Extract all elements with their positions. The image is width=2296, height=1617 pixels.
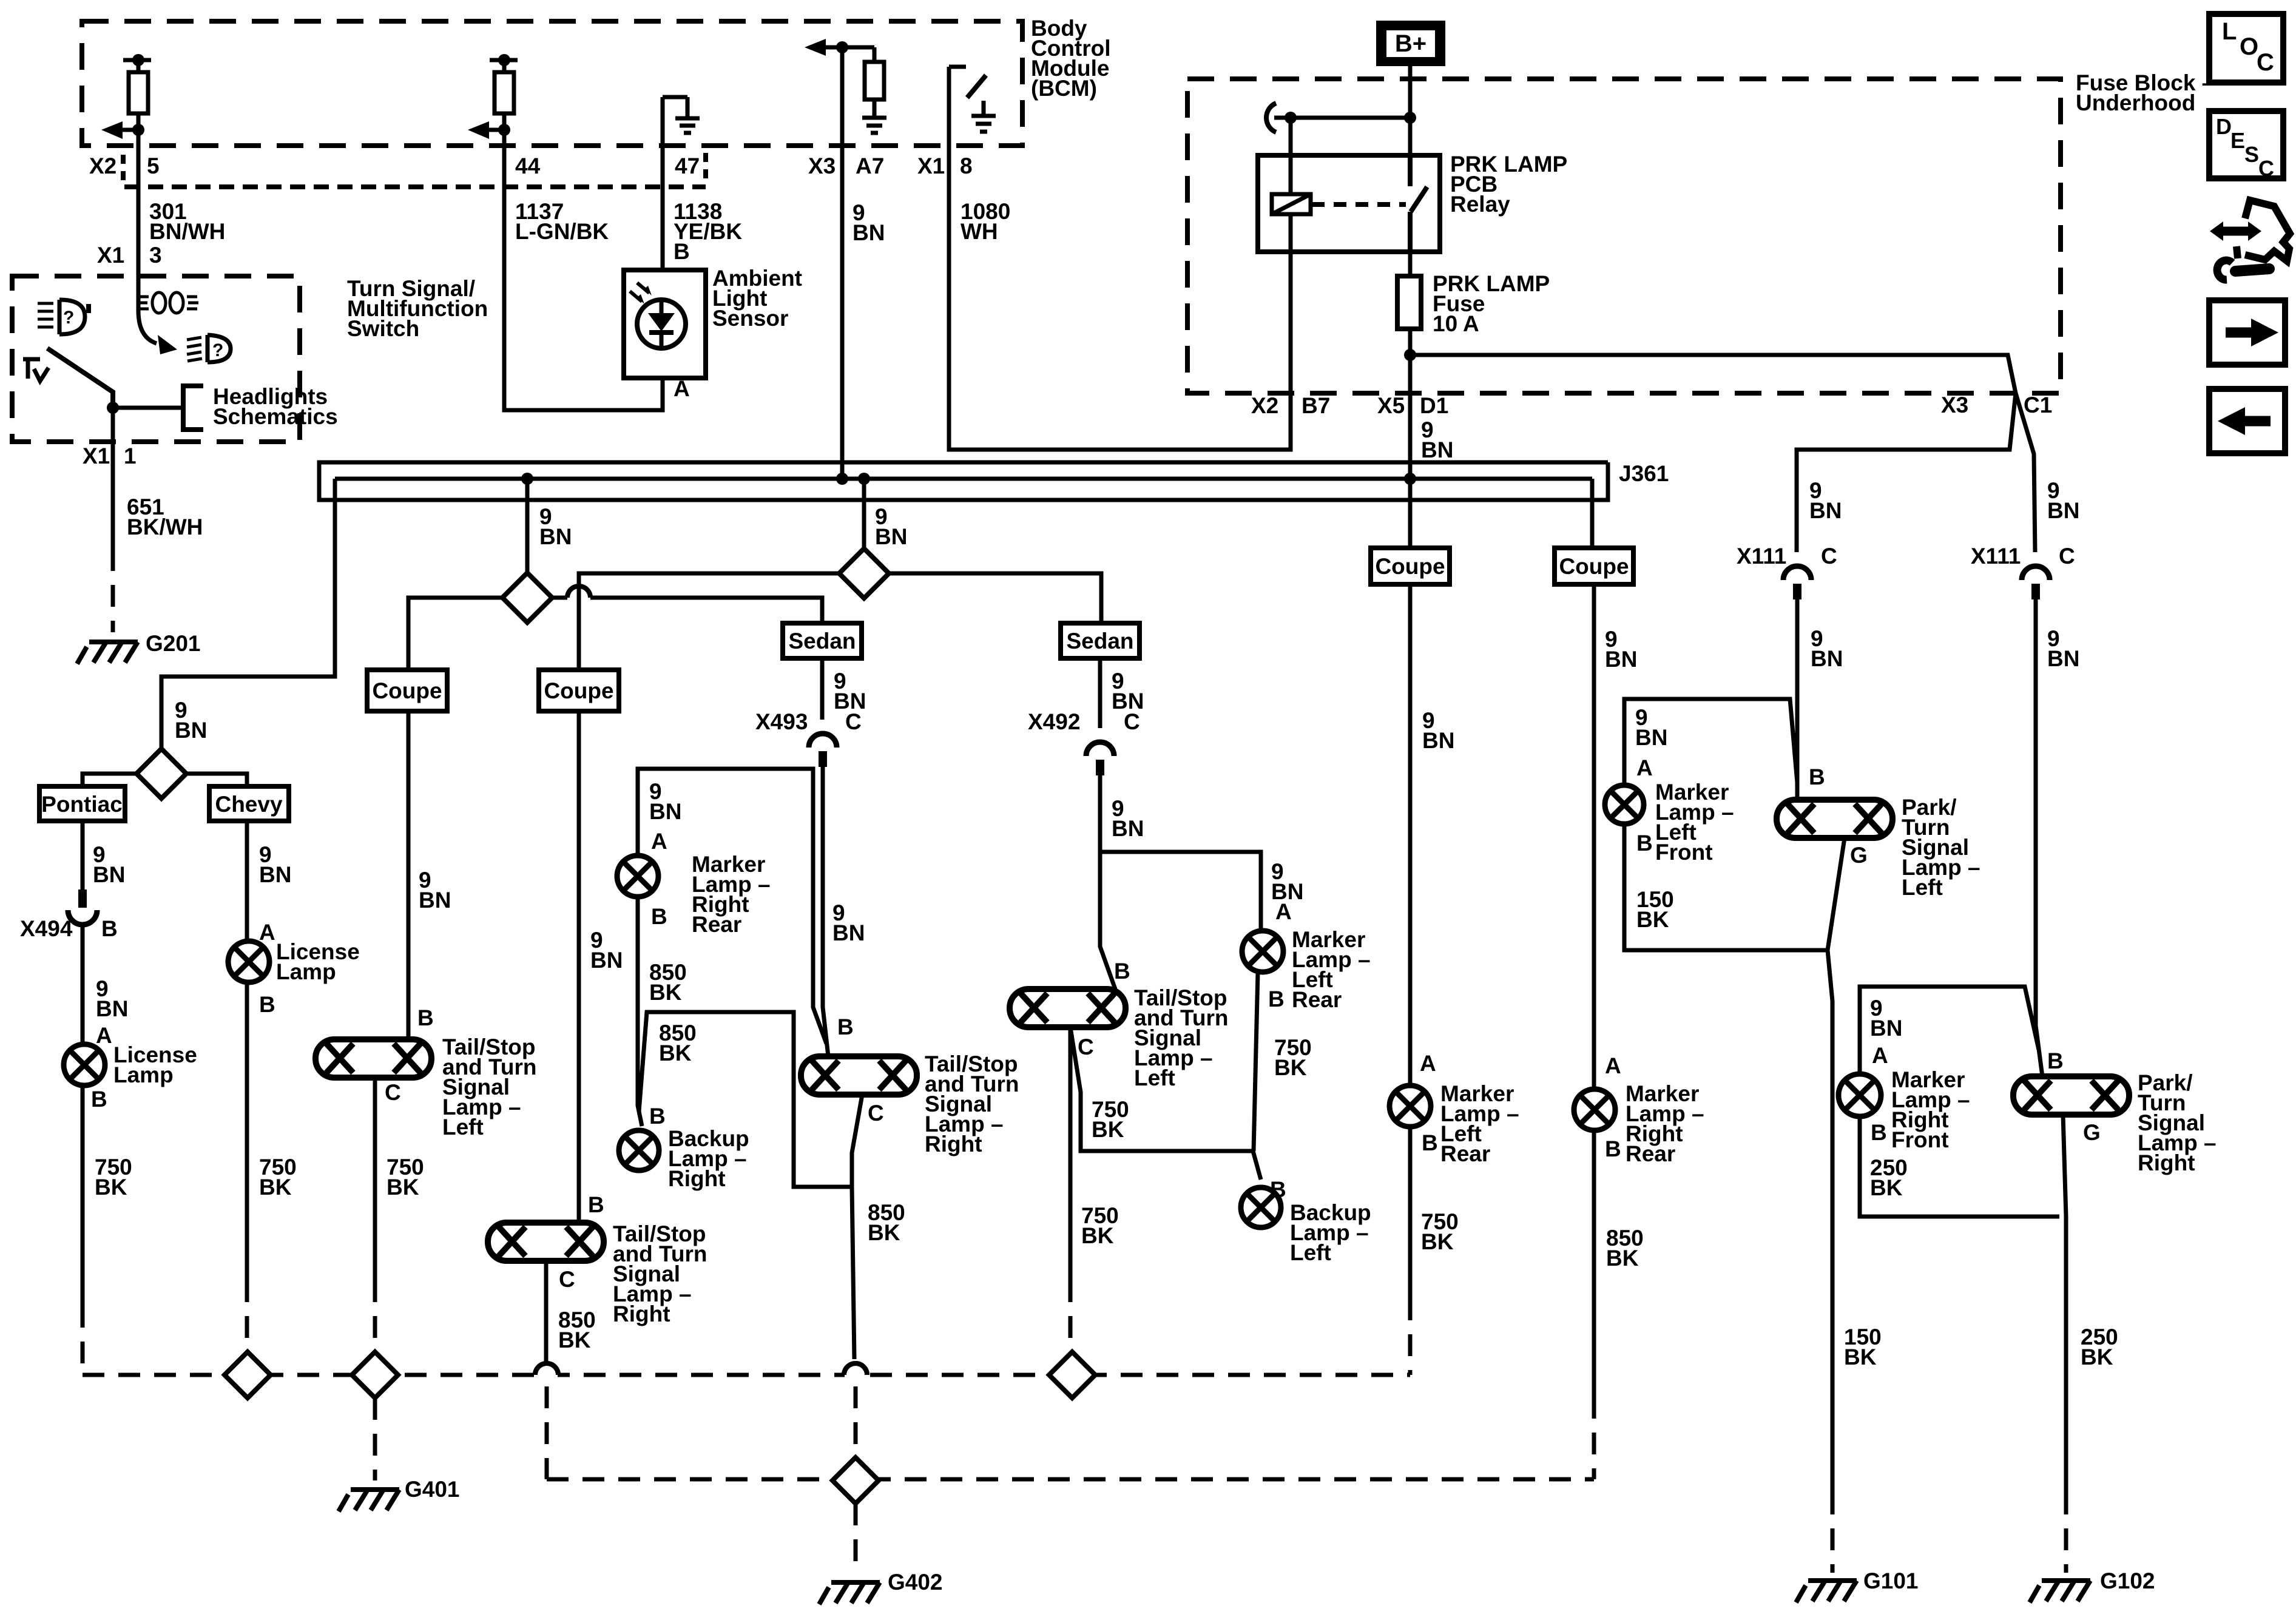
svg-text:BK: BK <box>558 1328 591 1352</box>
ground G102 <box>2030 1581 2090 1602</box>
splice pack J361 outline <box>319 462 1608 500</box>
icon arrow left box <box>2209 389 2285 453</box>
wire Coupe-4 9 BN to marker lamp right rear A <box>1592 584 1596 1089</box>
svg-text:Relay: Relay <box>1450 192 1510 217</box>
svg-text:BK: BK <box>649 980 682 1005</box>
svg-text:5: 5 <box>147 154 160 178</box>
svg-text:Rear: Rear <box>1292 987 1342 1012</box>
BCM internal resistor leg pin X2-44 <box>490 60 518 130</box>
tail/stop and turn signal lamp - left (coupe) E3 <box>316 1039 431 1078</box>
Pontiac connector tag <box>39 786 125 821</box>
ground G101 <box>1796 1581 1857 1602</box>
svg-text:A: A <box>1605 1053 1621 1078</box>
svg-text:Chevy: Chevy <box>215 792 282 817</box>
ground (inside BCM, pin 47 leg) <box>675 118 700 133</box>
wire fuse output 9 BN <box>1408 329 1413 479</box>
splice S7 (diamond) over G402 <box>832 1457 879 1504</box>
connector X493 <box>809 734 837 748</box>
ambient light sensor U1 box <box>624 270 706 378</box>
svg-text:BK: BK <box>659 1041 692 1065</box>
wire S1 to Coupe connector 1 <box>408 598 502 670</box>
svg-text:44: 44 <box>515 154 541 178</box>
svg-text:Rear: Rear <box>1626 1141 1675 1166</box>
wire tail/stop C ground branch to backup lamp <box>1070 1027 1261 1180</box>
svg-text:A: A <box>1636 755 1653 780</box>
wire Coupe-1 9 BN to tail/stop lamp B <box>407 711 411 1039</box>
svg-text:Right: Right <box>925 1132 982 1156</box>
wire C1 branch to left X111 <box>1797 393 2016 552</box>
wire tail/stop C 750 BK to ground bus 1 <box>1069 1027 1073 1280</box>
ground G402 <box>819 1582 880 1604</box>
svg-text:(BCM): (BCM) <box>1031 76 1097 101</box>
wire bus left drop 9 BN <box>161 479 335 749</box>
BCM internal resistor leg pin X2-5 <box>123 60 151 130</box>
park/turn signal lamp - left E14 <box>1777 800 1893 838</box>
Sedan connector tag 2 <box>1061 623 1140 658</box>
svg-text:BN: BN <box>1605 647 1637 672</box>
svg-text:X111: X111 <box>1971 544 2021 569</box>
svg-text:Coupe: Coupe <box>544 678 613 703</box>
marker lamp - left rear E8 <box>1242 931 1283 972</box>
svg-text:Coupe: Coupe <box>372 678 442 703</box>
marker lamp - right rear (coupe) E12 <box>1574 1089 1615 1130</box>
svg-text:B: B <box>1636 831 1653 856</box>
label 1137 L-GN/BK <box>515 199 609 244</box>
svg-text:BK: BK <box>387 1175 419 1200</box>
svg-text:G201: G201 <box>146 631 201 656</box>
svg-text:A: A <box>1420 1051 1436 1076</box>
svg-text:C1: C1 <box>2024 393 2052 417</box>
splice S2 (diamond) <box>839 549 889 598</box>
icon arrow right box <box>2209 300 2285 365</box>
svg-text:C: C <box>385 1080 401 1105</box>
feed loop to marker lamp left front <box>1624 699 1797 785</box>
svg-text:3: 3 <box>149 243 162 268</box>
BCM internal switch to ground, pin X1-8 <box>949 67 966 146</box>
Chevy connector tag <box>209 786 289 821</box>
svg-text:A: A <box>1872 1043 1888 1068</box>
node: junction dots X2-5 leg <box>132 54 144 66</box>
wire S2 to Sedan connector 2 <box>889 573 1101 623</box>
license lamp (Pontiac) E1 <box>64 1044 105 1085</box>
marker lamp - left rear (coupe) E11 <box>1389 1085 1431 1127</box>
license lamp (Chevy) E2 <box>228 941 269 982</box>
svg-text:C: C <box>2059 544 2075 569</box>
X47 connector divider tick <box>703 153 708 182</box>
svg-text:X1: X1 <box>83 444 110 468</box>
label 9 BN (A7 wire) <box>853 200 885 245</box>
svg-text:BN/WH: BN/WH <box>149 219 225 244</box>
svg-text:X2: X2 <box>89 154 116 178</box>
svg-text:Rear: Rear <box>1440 1141 1490 1166</box>
svg-text:A: A <box>674 376 690 401</box>
resistor inside BCM on X3-A7 leg <box>865 62 884 100</box>
wire tail/stop C 850 BK crossing to G402 bus <box>544 1261 549 1363</box>
svg-text:A: A <box>651 829 667 854</box>
svg-text:B7: B7 <box>1302 393 1330 418</box>
svg-text:B: B <box>649 1104 666 1129</box>
arrow (signal continues) X2-44 leg <box>489 128 504 132</box>
svg-text:BK: BK <box>868 1220 900 1245</box>
svg-text:C: C <box>1821 544 1837 569</box>
svg-text:G: G <box>2083 1120 2101 1145</box>
wire X111 9 BN to park/turn lamp B <box>2036 599 2042 1076</box>
wire into switch with curved arrow <box>138 276 157 343</box>
svg-text:Lamp: Lamp <box>113 1062 174 1087</box>
svg-text:8: 8 <box>960 154 973 178</box>
svg-text:BN: BN <box>832 920 865 945</box>
wire to headlights schematics bracket <box>113 406 183 410</box>
svg-text:Left: Left <box>1134 1065 1175 1090</box>
svg-text:S: S <box>2244 142 2259 167</box>
wire marker B 750 BK down <box>1254 972 1258 1151</box>
svg-text:B: B <box>588 1192 604 1217</box>
tail/stop and turn signal lamp - right (coupe) E4 <box>488 1223 604 1261</box>
splice pack J361 bus wire <box>335 477 1592 481</box>
marker lamp - left front E13 <box>1605 785 1644 824</box>
svg-text:B+: B+ <box>1395 30 1427 57</box>
svg-text:Right: Right <box>613 1301 670 1326</box>
svg-text:C: C <box>2257 49 2274 76</box>
tail/stop and turn signal lamp - left (sedan) E9 <box>1010 989 1126 1027</box>
svg-text:Sedan: Sedan <box>788 629 856 653</box>
wire park/turn G 150 BK to G101 <box>1828 838 1845 1493</box>
svg-text:B: B <box>1605 1136 1621 1161</box>
turn signal switch label <box>347 276 488 341</box>
svg-text:Pontiac: Pontiac <box>41 792 123 817</box>
wire B+ down <box>1408 66 1413 118</box>
labels X2 B7 X5 D1 <box>1251 393 1453 462</box>
wire tail/stop C 750 BK to G401 bus <box>373 1078 377 1280</box>
svg-text:BK: BK <box>1844 1345 1877 1369</box>
wire Sedan-1 9 BN to X493 <box>820 658 825 720</box>
svg-text:10 A: 10 A <box>1433 311 1479 336</box>
fuse block label <box>2076 70 2214 115</box>
Sedan connector tag 1 <box>783 623 862 658</box>
wire park/turn G 250 BK to G102 <box>2063 1115 2066 1493</box>
svg-text:G402: G402 <box>888 1570 943 1595</box>
svg-text:BK: BK <box>95 1175 127 1200</box>
svg-text:BN: BN <box>590 948 623 973</box>
wire S1 to Sedan connector 1 (hops over riser) <box>552 598 822 623</box>
svg-text:A: A <box>96 1023 112 1048</box>
switch blade (open) pin X1-8 <box>967 75 986 98</box>
park/turn signal lamp - right E16 <box>2013 1076 2129 1115</box>
svg-text:BK: BK <box>1081 1223 1114 1248</box>
wire Chevy license lamp B 750 BK <box>245 982 249 1280</box>
splice S3 (diamond) to Pontiac/Chevy <box>137 749 186 798</box>
svg-text:BK: BK <box>2081 1345 2113 1369</box>
svg-text:C: C <box>845 709 862 734</box>
svg-text:B: B <box>1809 765 1825 789</box>
svg-text:B: B <box>2047 1048 2064 1073</box>
svg-text:E: E <box>2230 128 2245 153</box>
svg-text:Right: Right <box>2138 1150 2195 1175</box>
Coupe connector tag 3 <box>1371 548 1450 584</box>
Body Control Module (BCM) dashed box <box>82 21 1022 146</box>
svg-text:BK: BK <box>1092 1117 1124 1142</box>
backup lamp - right E6 <box>619 1130 659 1170</box>
wire X3-A7 9 BN from BCM to splice pack J361 <box>840 47 845 479</box>
ambient light sensor label + pin A <box>674 266 802 401</box>
PRK LAMP PCB relay K1 box <box>1258 155 1440 252</box>
light arrows into sensor <box>630 283 649 302</box>
svg-text:C: C <box>2258 156 2274 181</box>
svg-text:X3: X3 <box>1941 393 1968 417</box>
wire marker B 750 BK to ground bus 1 <box>1408 1127 1413 1298</box>
icon wrench and arrows <box>2220 227 2251 236</box>
labels X3 C1 <box>1941 393 2052 417</box>
svg-text:X5: X5 <box>1377 393 1405 418</box>
svg-text:BN: BN <box>2047 646 2079 671</box>
wire marker B 850 BK to ground bus 2 <box>1592 1130 1596 1397</box>
label 9 BN (left X111 riser) <box>1809 478 1842 523</box>
wire Coupe-3 9 BN to marker lamp left rear A <box>1408 584 1413 1085</box>
tail/stop and turn signal lamp - right (sedan) E7 <box>801 1056 917 1095</box>
label 1080 WH <box>961 199 1010 244</box>
label 301 BN/WH <box>97 199 225 268</box>
Coupe connector tag 1 <box>367 670 447 711</box>
svg-text:BK: BK <box>1606 1246 1639 1271</box>
svg-text:C: C <box>559 1267 575 1292</box>
svg-text:BN: BN <box>875 524 907 549</box>
svg-text:BN: BN <box>175 718 207 743</box>
turn signal / multifunction switch dashed box <box>12 276 300 442</box>
wire bus drop to splice diamond 2 <box>862 479 866 549</box>
svg-text:BN: BN <box>259 862 291 887</box>
svg-text:B: B <box>1114 959 1130 984</box>
label 9 BN (right X111 riser) <box>2047 478 2079 523</box>
svg-text:BN: BN <box>1422 728 1454 753</box>
connector X111 (left) <box>1737 544 1837 569</box>
relay label <box>1450 152 1567 217</box>
svg-text:BN: BN <box>1809 498 1842 523</box>
svg-text:B: B <box>651 904 667 929</box>
wire X111 9 BN to park/turn lamp B <box>1795 599 1800 800</box>
svg-text:G101: G101 <box>1863 1568 1919 1593</box>
svg-text:B: B <box>1270 1177 1286 1202</box>
splice S1 (diamond) <box>502 573 552 623</box>
svg-text:?: ? <box>212 340 223 360</box>
Coupe connector tag 4 <box>1555 548 1633 584</box>
svg-text:Switch: Switch <box>347 316 419 341</box>
relay switch contact <box>1410 155 1427 252</box>
node: junction dots X2-44 leg <box>498 54 510 66</box>
node: bus junction dots <box>521 473 533 485</box>
svg-text:X492: X492 <box>1028 709 1080 734</box>
svg-text:Left: Left <box>1290 1240 1331 1265</box>
wire C1 branch to right X111 <box>2016 393 2035 552</box>
BCM arrow leg pin X3-A7 <box>826 47 874 118</box>
wire marker B 250 BK <box>1860 1116 2059 1217</box>
wire 1137 L-GN/BK from BCM X2-44 to ambient light sensor A <box>504 130 663 410</box>
svg-text:B: B <box>674 239 690 264</box>
svg-text:G102: G102 <box>2100 1568 2155 1593</box>
dashed drop to ground G401 <box>373 1398 377 1480</box>
PRK LAMP fuse F1 10A <box>1397 276 1421 329</box>
wire to relay coil <box>1289 118 1293 155</box>
svg-text:Rear: Rear <box>692 912 741 937</box>
svg-text:X1: X1 <box>97 243 124 268</box>
ground bus 2 dashed (to G402) <box>547 1477 1594 1482</box>
svg-text:X494: X494 <box>20 916 73 941</box>
svg-text:Coupe: Coupe <box>1375 554 1445 579</box>
ambient light sensor photodiode symbol <box>637 300 686 348</box>
connector X111 (right) <box>1971 544 2075 569</box>
low beam headlamp icon <box>208 335 231 362</box>
svg-text:BN: BN <box>2047 498 2079 523</box>
svg-text:J361: J361 <box>1619 461 1669 486</box>
BCM internal ground leg pin X2-47 <box>663 97 687 146</box>
svg-text:Front: Front <box>1891 1127 1949 1152</box>
node: tie bar junction dots <box>1285 112 1297 124</box>
svg-text:Left: Left <box>442 1115 484 1139</box>
svg-text:B: B <box>259 992 275 1017</box>
svg-text:C: C <box>1124 709 1140 734</box>
label 1138 YE/BK and pin B <box>674 199 742 264</box>
svg-text:Lamp: Lamp <box>276 959 336 984</box>
wire marker B 150 BK <box>1624 824 1828 950</box>
svg-text:D1: D1 <box>1420 393 1448 418</box>
wire Coupe-2 9 BN to tail/stop lamp B <box>577 711 581 1223</box>
marker lamp - right front E15 <box>1838 1074 1881 1116</box>
feed loop to marker lamp right front <box>1860 987 2039 1074</box>
wire Chevy 9 BN to license lamp A <box>245 821 249 941</box>
wire marker B 850 BK to backup lamp <box>638 897 642 1126</box>
svg-text:BN: BN <box>96 996 128 1021</box>
svg-text:Sedan: Sedan <box>1066 629 1133 653</box>
node: junction dot X3-A7 <box>836 41 848 53</box>
wire 301 BN/WH from BCM X2-5 to multifunction switch <box>137 130 141 276</box>
marker lamp - right rear E5 <box>617 856 658 897</box>
svg-text:B: B <box>837 1014 854 1039</box>
fuse block underhood dashed box <box>1187 79 2061 393</box>
svg-text:BN: BN <box>1635 725 1667 750</box>
svg-text:A: A <box>1275 899 1292 924</box>
svg-text:X1: X1 <box>917 154 945 178</box>
wire S3 to Chevy tag <box>186 774 247 786</box>
wire tail/stop C 850 BK down <box>852 1095 862 1187</box>
svg-text:Underhood: Underhood <box>2076 90 2195 115</box>
high beam headlamp icon <box>59 300 85 334</box>
headlights schematics bracket <box>183 386 203 430</box>
ground loop backup to tail/stop C <box>639 1012 852 1187</box>
svg-text:BN: BN <box>853 220 885 245</box>
svg-text:X3: X3 <box>808 154 836 178</box>
svg-text:L: L <box>2222 18 2237 45</box>
labels X1-1 and 651 BK/WH <box>83 444 203 539</box>
svg-text:G401: G401 <box>405 1477 460 1502</box>
hop over ground bus 1 <box>535 1363 558 1375</box>
svg-text:Schematics: Schematics <box>213 404 338 429</box>
ground (inside BCM, A7 leg) <box>862 118 886 133</box>
relay feed tie bar with hook <box>1266 103 1276 132</box>
dashed wire to splice on ground bus 2 <box>854 1386 858 1456</box>
wire 1138 YE/BK from BCM X2-47 to ambient light sensor B <box>661 146 665 270</box>
connector X492 <box>1086 742 1114 756</box>
svg-text:B: B <box>1871 1120 1887 1145</box>
feed loop to marker lamp right rear <box>638 769 826 1044</box>
svg-text:47: 47 <box>675 154 700 178</box>
svg-text:O: O <box>2240 33 2258 60</box>
arrow (signal continues) X2-5 leg <box>123 128 138 132</box>
svg-text:D: D <box>2216 114 2232 139</box>
Coupe connector tag 2 <box>539 670 619 711</box>
svg-text:X493: X493 <box>755 709 808 734</box>
svg-text:BN: BN <box>1112 816 1144 841</box>
splice S4 (diamond) Chevy <box>225 1352 271 1398</box>
ground bus 1 dashed (to G401) <box>83 1373 1410 1377</box>
X2 connector divider tick (left) <box>121 155 126 183</box>
dashed drop to ground G402 <box>854 1504 858 1573</box>
switch lever <box>47 348 113 408</box>
icon LOC box <box>2209 14 2283 83</box>
wire bus through-drop D1 to Coupe connector <box>1408 479 1413 548</box>
ground G201 <box>77 642 138 664</box>
svg-text:X111: X111 <box>1737 544 1786 569</box>
wire hop masks over ground bus 1 <box>536 1371 558 1379</box>
svg-text:BN: BN <box>1870 1016 1902 1041</box>
node: lever junction dot <box>107 402 119 414</box>
headlights schematics label <box>213 384 338 429</box>
wire to relay switch <box>1408 118 1413 155</box>
svg-text:B: B <box>417 1005 434 1030</box>
svg-text:BN: BN <box>539 524 572 549</box>
wire bus right-end drop to Coupe connector <box>1590 479 1595 548</box>
svg-text:B: B <box>1268 987 1285 1011</box>
wire S2 to Coupe connector 2 <box>579 573 839 670</box>
svg-text:1: 1 <box>124 444 137 468</box>
svg-text:Front: Front <box>1655 840 1713 865</box>
svg-text:BK: BK <box>1870 1175 1903 1200</box>
relay actuation dashed link <box>1312 202 1406 207</box>
svg-text:Left: Left <box>1902 875 1943 900</box>
ground (inside BCM, pin 8 leg) <box>971 101 996 132</box>
svg-text:?: ? <box>63 308 74 328</box>
wire S3 to Pontiac tag <box>83 774 137 786</box>
svg-text:BN: BN <box>419 888 451 913</box>
icon DESC box <box>2209 111 2283 178</box>
DRL icon <box>137 292 198 313</box>
splice S6 (diamond) sedan left ground <box>1049 1352 1095 1398</box>
BCM label <box>1031 16 1111 101</box>
wire 1080 WH from BCM X1-8 to relay coil B7 <box>949 146 1291 450</box>
backup lamp - left E10 <box>1241 1187 1281 1227</box>
hop over Coupe-2 riser <box>567 586 590 598</box>
wire Sedan-2 9 BN to X492 <box>1098 658 1102 728</box>
svg-text:BK: BK <box>1274 1055 1307 1080</box>
svg-text:BN: BN <box>1421 437 1453 462</box>
svg-text:Coupe: Coupe <box>1559 554 1629 579</box>
svg-text:A7: A7 <box>856 154 884 178</box>
wire 651 BK/WH to ground G201 <box>111 408 115 549</box>
svg-text:L-GN/BK: L-GN/BK <box>515 219 609 244</box>
svg-text:X2: X2 <box>1251 393 1278 418</box>
svg-text:BN: BN <box>93 862 125 887</box>
svg-text:BK/WH: BK/WH <box>127 515 203 539</box>
svg-text:C: C <box>1078 1035 1094 1059</box>
dashed wire down to ground bus 2 <box>545 1386 549 1479</box>
wire fuse output to X3-C1 <box>1410 355 2016 393</box>
svg-text:BN: BN <box>649 799 681 824</box>
svg-text:BK: BK <box>1421 1229 1454 1254</box>
svg-text:C: C <box>868 1101 884 1126</box>
wire X494 to license lamp A <box>81 925 85 1044</box>
X2 connector strip dashed line <box>124 184 706 189</box>
relay coil <box>1272 194 1311 214</box>
branch to marker lamp left rear <box>1100 852 1261 931</box>
node: fuse output junction <box>1404 349 1416 361</box>
